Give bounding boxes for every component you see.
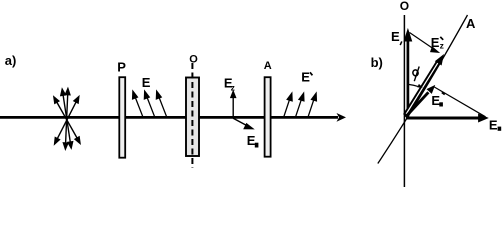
vector E along O (404, 30, 411, 118)
svg-text:O: O (189, 54, 198, 66)
arrow E-square after O (233, 118, 253, 128)
svg-text:E: E (431, 35, 440, 50)
E' arrow 1 after A (284, 93, 292, 116)
E arrow 3 after P (156, 91, 166, 116)
vector E'' along A short (406, 86, 435, 117)
vector Em horizontal (406, 114, 488, 122)
svg-text:E: E (142, 75, 151, 90)
E arrow 1 after P (133, 91, 143, 116)
axis arrowhead (337, 113, 347, 122)
unpolarized light star arrow 1 (61, 89, 73, 148)
svg-text:E: E (489, 117, 498, 132)
svg-text:P: P (117, 60, 126, 75)
E arrow 2 after P (144, 91, 154, 116)
cell O dashed axis line (191, 63, 193, 168)
axis A diagonal b (378, 15, 468, 164)
svg-text:E: E (247, 133, 256, 148)
arrow Ez after O (231, 92, 236, 118)
E' arrow 3 after A (308, 93, 316, 116)
svg-text:A: A (466, 16, 476, 31)
vector E' double-stroke along A (405, 61, 439, 116)
E' arrow 2 after A (296, 93, 304, 116)
svg-text:E: E (431, 93, 440, 108)
svg-text:A: A (264, 60, 272, 72)
axis O vertical b (403, 15, 405, 187)
label phi (412, 69, 419, 76)
arc arrowhead (417, 84, 423, 88)
svg-text:b): b) (371, 55, 383, 70)
svg-text:z: z (231, 83, 235, 93)
projection line E'' tip to Em tip (434, 87, 485, 117)
projection line E tip to E' head (410, 33, 439, 53)
arrowhead E' (435, 54, 444, 66)
polarizer P (119, 77, 125, 158)
wire optical axis a (0, 116, 338, 119)
svg-text:a): a) (5, 53, 17, 68)
unpolarized light star arrow 2 (63, 89, 70, 149)
svg-text:z: z (440, 40, 444, 50)
svg-text:E: E (391, 29, 400, 44)
angle arc phi (408, 84, 418, 86)
svg-text:E: E (301, 69, 310, 84)
cell O rectangle (186, 78, 199, 157)
svg-text:O: O (400, 0, 409, 13)
unpolarized light star arrow 4 (54, 97, 80, 143)
analyzer A (265, 77, 271, 157)
unpolarized light star arrow 3 (55, 97, 79, 144)
